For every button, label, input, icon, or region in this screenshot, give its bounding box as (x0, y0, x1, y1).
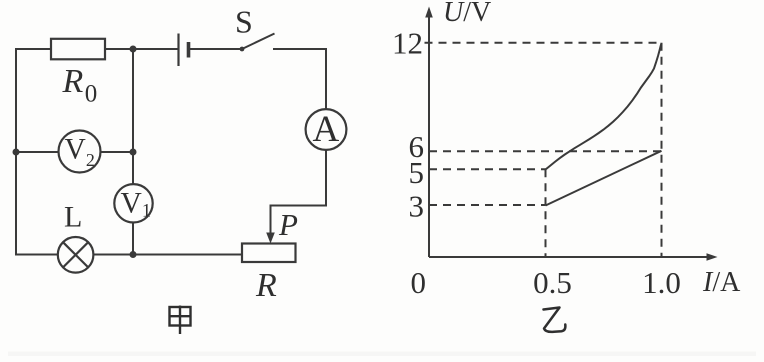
axis label 0 (411, 265, 427, 300)
ammeter A (306, 109, 347, 150)
svg-text:5: 5 (409, 155, 425, 190)
node: V2 left junction (13, 149, 20, 156)
svg-text:P: P (278, 207, 298, 242)
label 甲 (jia) (170, 306, 191, 335)
wire: left rail (15, 49, 17, 255)
curve: upper (lamp) (546, 43, 662, 170)
dashed line U=5 (429, 168, 546, 170)
axis label 6 (409, 129, 425, 164)
resistor R0 (51, 39, 105, 108)
dashed line U=6 (429, 150, 662, 152)
wire: resistor to battery (105, 48, 178, 50)
wire: top left segment (15, 48, 52, 50)
wire: switch to top-right corner and down (273, 49, 326, 110)
switch S (235, 4, 275, 52)
svg-text:I/A: I/A (702, 267, 741, 298)
voltmeter V2 (59, 131, 101, 173)
wire: battery to switch (190, 48, 242, 50)
node: bottom junction (130, 251, 137, 258)
axis label 1.0 (642, 265, 681, 300)
voltmeter V1 (114, 184, 152, 222)
svg-text:A: A (313, 109, 340, 150)
wire: V2 branch (16, 151, 133, 153)
axis label 5 (409, 155, 425, 190)
svg-text:1.0: 1.0 (642, 265, 681, 300)
slider arrow P (266, 207, 298, 244)
axis label 3 (409, 189, 425, 224)
svg-text:R: R (255, 267, 277, 304)
svg-text:0: 0 (411, 265, 427, 300)
svg-text:U/V: U/V (443, 0, 491, 28)
label 乙 (yi) (544, 308, 566, 332)
scan artifact band at bottom (8, 352, 756, 357)
dashed line I=0.5 (545, 169, 547, 257)
wire: middle rail (132, 49, 134, 255)
wire: ammeter down, jog left, down to slider (271, 150, 327, 236)
svg-text:S: S (235, 4, 253, 40)
battery (179, 34, 189, 67)
axis label 12 (392, 26, 423, 61)
axis label 0.5 (533, 265, 572, 300)
svg-text:0.5: 0.5 (533, 265, 572, 300)
svg-text:3: 3 (409, 189, 425, 224)
svg-text:12: 12 (392, 26, 423, 61)
rheostat R (242, 244, 296, 305)
dashed line I=1.0 (661, 43, 663, 257)
graph X axis I/A (429, 253, 741, 298)
dashed line U=12 (425, 42, 662, 44)
curve: lower (resistor) (546, 151, 662, 206)
lamp L (58, 201, 94, 273)
dashed line U=3 (429, 204, 546, 206)
node: V2 right junction (130, 149, 137, 156)
graph Y axis U/V (425, 0, 491, 257)
node: top junction (130, 46, 137, 53)
svg-text:L: L (64, 201, 82, 234)
wire: bottom run from left rail to rheostat (15, 254, 242, 256)
